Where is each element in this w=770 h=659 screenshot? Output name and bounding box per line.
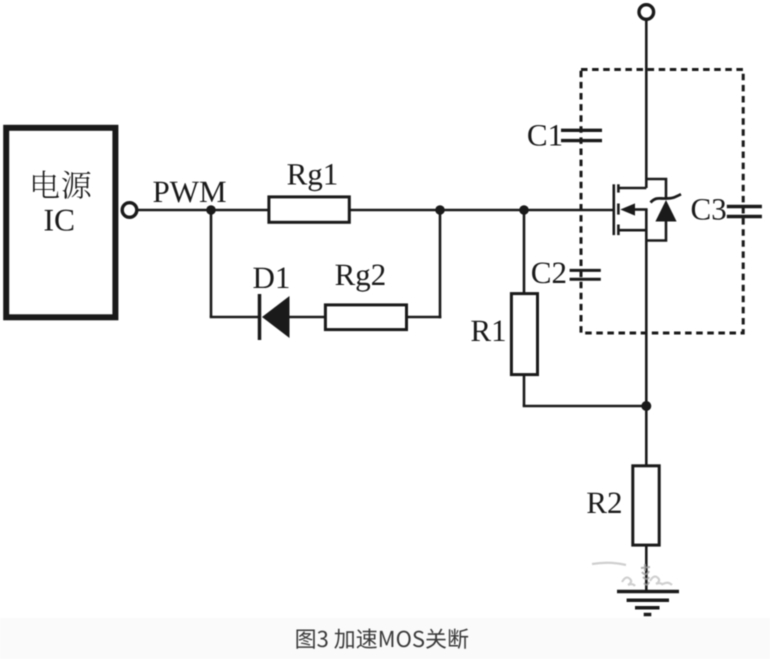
diode D1 triangle [262,296,290,338]
wire node A down [210,209,213,317]
wire node B to node C [440,209,524,212]
label D1 [253,268,288,289]
label PWM [153,182,225,203]
wire R1 down [523,375,526,406]
label Rg1 [287,164,336,191]
node B junction dot [435,205,445,215]
wire D1 to Rg2 [290,316,327,319]
dashed box MOSFET package [581,70,743,334]
capacitor C2 plates [570,269,601,272]
wire PWM terminal to node A [137,209,211,212]
drain terminal circle [639,5,654,20]
Q1 body diode bottom stub [646,221,666,241]
Q1 channel segment top [617,184,620,192]
label C2 [532,262,565,283]
label C3 [692,199,726,220]
wire riser up to node B [439,210,442,318]
caption 图3 加速MOS关断 [296,628,468,648]
transistor Q1 gate bar [612,184,615,235]
wire node C to MOSFET gate [524,209,614,212]
Q1 body diode top stub [646,179,666,199]
Q1 body arrow line [633,208,648,211]
label Rg2 [335,264,384,291]
caption strip background [0,618,770,659]
wire to diode D1 [210,316,260,319]
capacitor C1 plates [561,129,602,132]
wire node A to Rg1 [211,209,269,212]
node A junction dot [206,205,216,215]
resistor Rg1 [269,197,349,222]
resistor R2 [633,466,659,545]
watermark [592,563,672,586]
label R2 [587,492,621,513]
label 电源 [33,170,91,198]
Q1 channel segment middle [617,204,620,215]
node D junction dot [641,401,651,411]
wire Rg2 to right riser [407,316,442,319]
wire node C down to R1 [523,210,526,294]
Q1 body diode cathode bar [651,194,682,202]
Q1 source connection bottom [618,229,646,232]
resistor Rg2 [325,305,406,330]
ground symbol [617,592,679,615]
label C1 [528,125,561,146]
Q1 channel segment bottom [617,225,620,236]
wire Rg1 to node B [349,209,440,212]
Q1 drain connection [618,187,646,190]
label R1 [471,321,504,341]
label IC [45,210,74,231]
diode D1 cathode bar [258,294,262,340]
wire R2 to ground [645,545,648,590]
resistor R1 [511,294,537,375]
Q1 body diode triangle [655,200,676,222]
PWM terminal circle [122,203,137,218]
capacitor C3 plates [727,205,762,208]
wire MOSFET source down through node D to R2 [645,210,648,466]
wire R1 to node D [523,405,647,408]
node C junction dot [519,205,529,215]
wire terminal to MOSFET drain [645,19,648,188]
power IC box U1 [6,128,115,317]
Q1 body arrow head [620,203,635,215]
